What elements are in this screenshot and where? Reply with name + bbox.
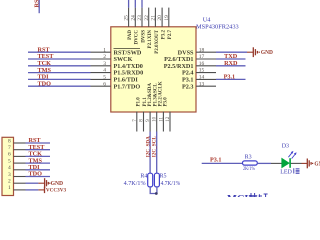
svg-text:I2C_SCL: I2C_SCL [151,136,157,157]
wire TDO [28,85,91,87]
svg-text:U4: U4 [203,16,212,23]
svg-text:16: 16 [199,61,205,67]
svg-text:5: 5 [103,75,106,81]
U4 pin 2 (SWCK) [91,54,133,63]
U4 pin 14 (P3.1) [182,75,216,84]
U4 pin 5 (P1.6/TDI) [91,75,139,84]
U4 pin 16 (P2.5/RXD1) [164,61,216,70]
svg-text:2: 2 [103,54,106,60]
svg-text:25: 25 [124,15,130,21]
svg-text:P1.7/TDO: P1.7/TDO [114,83,141,90]
svg-text:23: 23 [137,15,143,21]
svg-text:GND: GND [261,50,274,56]
svg-text:GND: GND [51,181,64,187]
svg-text:20: 20 [157,15,163,21]
svg-text:15: 15 [199,68,205,74]
svg-text:P3.1: P3.1 [224,74,236,81]
resistor R5 [154,173,180,187]
wire (to power, top) [141,0,143,8]
svg-text:DVSS: DVSS [141,30,146,43]
svg-text:19: 19 [164,15,170,21]
ground GND (after D3) [302,159,320,169]
U4 pin 11 [159,81,165,131]
wire I2C_SCL [156,132,158,174]
svg-text:P2.3: P2.3 [182,83,194,90]
wire RST [26,142,51,144]
svg-text:6: 6 [8,152,11,158]
svg-text:P1.0: P1.0 [137,97,142,107]
wire TMS [28,72,91,74]
sheet title MCU module [227,193,268,205]
svg-text:7: 7 [8,145,11,151]
svg-text:11: 11 [159,116,164,121]
svg-text:2K/1%: 2K/1% [243,166,255,172]
wire (vertical, top-left) [38,0,40,13]
wire P3.1 (U4 pin 14) [216,78,246,80]
LED D3 [271,144,302,176]
svg-text:GND: GND [314,161,320,167]
U4 pin 13 (P2.3) [182,81,216,90]
svg-text:10: 10 [153,116,158,122]
MCU U4 body [111,27,196,112]
U4 pin 18 (DVSS) [178,47,216,56]
connector pin 1 [8,185,25,191]
svg-text:TDO: TDO [29,171,43,178]
svg-text:4: 4 [8,165,11,171]
ground GND (connector pin 2) [38,178,63,188]
U4 pin 4 (P1.5/RXD0) [91,68,144,77]
U4 pin 1 (RST/SWD) [91,47,142,56]
U4 pin 19 (P2.7) [164,8,173,40]
connector pin 2 [8,179,25,185]
wire (R3 to D3) [257,162,271,164]
svg-text:MCU: MCU [227,194,252,197]
U4 pin 25 (PAD) [124,8,133,40]
svg-text:VCC3V3: VCC3V3 [46,187,66,193]
svg-text:RXD: RXD [224,60,238,67]
svg-text:4: 4 [103,68,106,74]
svg-text:D3: D3 [282,144,289,150]
wire (R5 bottom) [156,187,158,194]
svg-text:17: 17 [199,54,205,60]
connector pin 4 [8,165,25,171]
wire TDI [26,169,51,171]
wire TEST [28,58,91,60]
wire (R4 bottom) [150,187,157,194]
U4 pin 6 (P1.7/TDO) [91,81,141,90]
wire TMS [26,162,51,164]
wire TXD [216,58,246,60]
U4 pin 12 [163,97,171,132]
wire (to power, top) [128,0,130,8]
U4 pin 21 (P2.0XOUT) [151,8,160,54]
U4 pin 10 [153,83,159,132]
wire TDI [28,78,91,80]
svg-text:MSP430FR2433: MSP430FR2433 [196,23,239,30]
connector pin 7 [8,145,25,151]
svg-text:P3.1: P3.1 [210,156,222,163]
U4 pin 7 [133,97,142,132]
power port VCC3V3 [38,187,66,194]
wire P3.1 (to R3) [202,162,243,164]
svg-text:R5: R5 [160,174,167,180]
svg-text:18: 18 [199,47,205,53]
svg-text:24: 24 [130,15,136,21]
wire TCK [28,65,91,67]
U4 pin 23 (DVSS) [137,8,146,43]
wire TEST [26,149,51,151]
svg-text:4.7K/1%: 4.7K/1% [161,181,181,187]
svg-text:22: 22 [144,15,150,21]
U4 pin 15 (P2.4) [182,68,216,77]
svg-text:TDO: TDO [38,80,52,87]
svg-text:8: 8 [8,138,11,144]
svg-text:3: 3 [103,61,106,67]
resistor R4 [124,173,153,187]
connector J1 body [2,137,14,195]
connector pin 6 [8,152,25,158]
wire (to power, top) [134,0,136,8]
svg-text:1: 1 [103,47,106,53]
svg-text:12: 12 [166,116,171,122]
svg-text:P2.7: P2.7 [168,30,173,40]
wire RST [28,51,91,53]
svg-text:6: 6 [103,81,106,87]
svg-text:LED: LED [280,170,292,176]
junction [155,192,158,195]
wire TDO [26,176,51,178]
svg-text:13: 13 [199,81,205,87]
U4 pin 20 (P3.2) [157,8,166,40]
U4 pin 9 [146,83,153,132]
svg-text:DVCC: DVCC [135,30,140,45]
wire (pin 2 to ground) [26,182,39,184]
wire TCK [26,155,51,157]
svg-text:P1.2&SDA: P1.2&SDA [148,83,153,107]
U4 pin 24 (DVCC) [130,8,139,45]
svg-text:P2.0XOUT: P2.0XOUT [155,29,160,53]
U4 pin 22 (P2.1XIN) [144,8,153,49]
svg-text:R4: R4 [140,174,147,180]
svg-text:1: 1 [8,185,11,191]
svg-text:3: 3 [8,172,11,178]
svg-text:P3.0: P3.0 [163,97,168,107]
svg-text:R3: R3 [245,154,252,160]
U4 pin 3 (P1.4/TXD0) [91,61,143,70]
wire DVSS to ground [216,51,247,53]
wire (pin 1 to VCC3V3) [26,189,39,191]
resistor R3 [243,154,258,172]
svg-text:PAD: PAD [128,30,133,40]
svg-text:14: 14 [199,75,205,81]
svg-text:21: 21 [151,15,157,21]
svg-text:P3.2: P3.2 [162,30,167,40]
svg-text:5: 5 [8,158,11,164]
connector pin 8 [8,138,25,144]
U4 pin 17 (P2.6/TXD1) [164,54,216,63]
wire I2C_SDA [149,132,151,174]
connector pin 5 [8,158,25,164]
connector pin 3 [8,172,25,178]
ground GND (at U4 pin 18) [247,47,273,57]
wire RXD [216,65,246,67]
svg-text:P2.1XIN: P2.1XIN [148,30,153,49]
svg-text:2: 2 [8,179,11,185]
svg-text:4.7K/1%: 4.7K/1% [124,181,146,187]
U4 pin 8 [140,97,149,132]
